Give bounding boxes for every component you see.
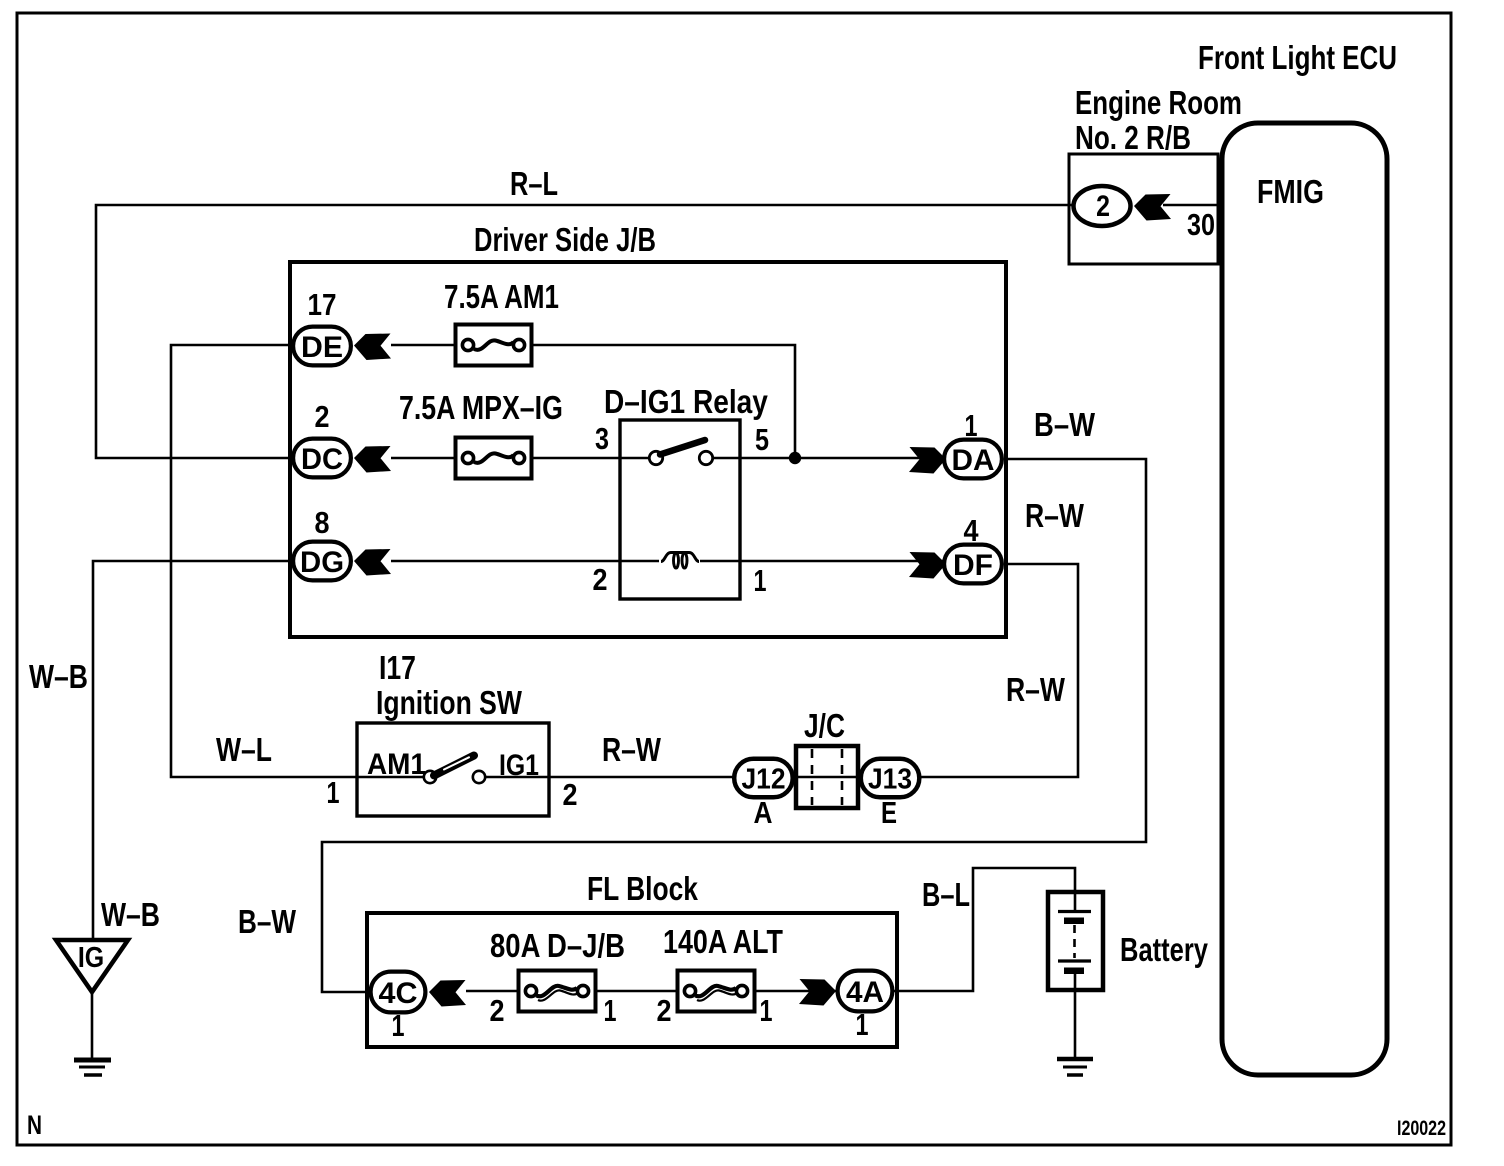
wire fuse AM1 to junction above relay pin 5 bbox=[533, 345, 795, 458]
svg-text:R–W: R–W bbox=[1025, 498, 1085, 534]
connector DA bbox=[944, 440, 1002, 479]
svg-text:140A ALT: 140A ALT bbox=[663, 924, 783, 960]
ignition contact circles bbox=[424, 771, 436, 783]
wire arrow DC to fuse MPX-IG bbox=[391, 457, 454, 460]
ground symbol battery bbox=[1057, 1059, 1093, 1075]
arrow into DA bbox=[909, 447, 946, 474]
fuse 7.5A AM1 bbox=[456, 325, 532, 366]
ECU FMIG box bbox=[1222, 123, 1387, 1075]
wire DE to W-L to ignition SW pin 1 bbox=[171, 345, 357, 777]
svg-text:5: 5 bbox=[755, 421, 769, 456]
svg-text:W–B: W–B bbox=[29, 659, 88, 695]
connector 4C bbox=[371, 972, 426, 1013]
arrow into DE bbox=[354, 334, 391, 361]
svg-text:Engine Room: Engine Room bbox=[1075, 85, 1242, 122]
wire fuse 80A to fuse 140A bbox=[597, 990, 676, 993]
svg-text:3: 3 bbox=[595, 420, 609, 455]
wire R-L net: engine room to DC bbox=[96, 205, 1072, 458]
junction node bbox=[789, 452, 801, 464]
arrow into DF bbox=[909, 552, 946, 579]
svg-text:DF: DF bbox=[953, 549, 993, 582]
svg-text:B–W: B–W bbox=[238, 904, 297, 941]
arrow into DC bbox=[354, 446, 391, 473]
svg-text:E: E bbox=[881, 795, 897, 830]
wire arrow 4C to fuse 80A bbox=[466, 990, 517, 993]
wire R-W net: DF right down to J13 bbox=[920, 564, 1078, 777]
Driver Side J/B box bbox=[290, 262, 1006, 637]
FL Block box bbox=[367, 913, 897, 1047]
svg-text:J12: J12 bbox=[741, 762, 785, 794]
svg-text:DE: DE bbox=[301, 331, 343, 364]
svg-text:4A: 4A bbox=[846, 976, 884, 1009]
svg-text:2: 2 bbox=[656, 994, 671, 1028]
fuse 140A ALT bbox=[678, 971, 755, 1012]
J/C dashed pin lines bbox=[812, 749, 842, 805]
svg-text:Front Light ECU: Front Light ECU bbox=[1198, 40, 1397, 77]
svg-text:I17: I17 bbox=[379, 650, 416, 686]
svg-text:R–L: R–L bbox=[510, 166, 558, 203]
fuse 80A D-J/B bbox=[519, 971, 596, 1012]
connector DG bbox=[293, 542, 351, 581]
connector J12 bbox=[734, 759, 793, 798]
svg-text:Battery: Battery bbox=[1120, 932, 1208, 969]
svg-text:8: 8 bbox=[314, 506, 329, 540]
svg-text:DA: DA bbox=[952, 444, 995, 477]
svg-text:2: 2 bbox=[1096, 189, 1110, 223]
svg-text:2: 2 bbox=[489, 994, 504, 1028]
ignition switch box bbox=[357, 723, 549, 816]
relay switch lever bbox=[660, 440, 705, 455]
ignition switch lever bbox=[434, 756, 474, 776]
connector 4A bbox=[838, 971, 893, 1012]
wire battery to ground bbox=[1074, 974, 1077, 1057]
svg-text:W–B: W–B bbox=[101, 897, 160, 933]
arrow into DG bbox=[354, 549, 391, 576]
wire FMIG pin 30 bbox=[1163, 204, 1222, 207]
svg-text:1: 1 bbox=[391, 1008, 404, 1043]
ground triangle IG bbox=[56, 940, 128, 992]
fuse 7.5A MPX-IG bbox=[456, 438, 532, 479]
svg-text:D–IG1 Relay: D–IG1 Relay bbox=[604, 384, 768, 421]
relay D-IG1 box bbox=[620, 420, 740, 599]
svg-text:7.5A AM1: 7.5A AM1 bbox=[444, 279, 559, 316]
svg-text:1: 1 bbox=[326, 775, 339, 810]
svg-text:W–L: W–L bbox=[216, 732, 272, 768]
arrow into 4C bbox=[429, 980, 466, 1007]
svg-text:I20022: I20022 bbox=[1397, 1116, 1446, 1140]
svg-text:1: 1 bbox=[759, 993, 772, 1028]
svg-text:A: A bbox=[753, 796, 772, 831]
svg-text:Driver Side J/B: Driver Side J/B bbox=[474, 222, 656, 259]
wire IG triangle to ground bbox=[91, 992, 94, 1058]
connector 2 Engine Room bbox=[1074, 186, 1131, 226]
wire relay pin 1 to DF bbox=[700, 560, 943, 563]
svg-text:N: N bbox=[27, 1110, 42, 1140]
wire fuse 140A to arrow 4A bbox=[756, 990, 836, 993]
svg-text:IG: IG bbox=[78, 941, 104, 973]
ground symbol IG bbox=[74, 1060, 111, 1075]
wire into ignition contact bbox=[357, 776, 424, 779]
svg-text:2: 2 bbox=[592, 563, 607, 597]
arrow into 4A bbox=[799, 979, 836, 1006]
Engine Room No.2 R/B box bbox=[1069, 154, 1218, 264]
wire relay pin 5 to DA bbox=[713, 457, 943, 460]
wire fuse MPX-IG to relay pin 3 bbox=[533, 457, 650, 460]
svg-text:FMIG: FMIG bbox=[1257, 174, 1324, 210]
battery plates bbox=[1058, 912, 1091, 975]
svg-text:R–W: R–W bbox=[1006, 672, 1066, 708]
junction connector J/C box bbox=[796, 746, 858, 808]
svg-text:J13: J13 bbox=[868, 762, 912, 794]
svg-text:1: 1 bbox=[855, 1007, 868, 1042]
svg-text:No. 2 R/B: No. 2 R/B bbox=[1075, 120, 1191, 157]
arrow into connector 2 bbox=[1134, 194, 1171, 221]
svg-text:2: 2 bbox=[314, 400, 329, 434]
wire DG to W-B down to IG ground bbox=[93, 561, 292, 940]
svg-text:Ignition SW: Ignition SW bbox=[376, 685, 523, 721]
svg-text:17: 17 bbox=[308, 288, 337, 323]
svg-text:DG: DG bbox=[300, 546, 344, 579]
svg-text:FL Block: FL Block bbox=[587, 871, 698, 907]
battery box bbox=[1048, 892, 1103, 990]
svg-text:DC: DC bbox=[301, 442, 343, 476]
relay coil bbox=[661, 553, 699, 569]
svg-text:2: 2 bbox=[562, 778, 577, 812]
svg-text:J/C: J/C bbox=[804, 708, 845, 744]
svg-text:B–L: B–L bbox=[922, 877, 970, 914]
svg-text:1: 1 bbox=[603, 993, 616, 1028]
svg-text:30: 30 bbox=[1187, 206, 1215, 241]
svg-text:7.5A MPX–IG: 7.5A MPX–IG bbox=[399, 390, 563, 426]
connector DC bbox=[293, 439, 351, 478]
svg-text:4C: 4C bbox=[379, 977, 418, 1010]
connector DF bbox=[944, 545, 1002, 584]
svg-text:1: 1 bbox=[753, 563, 766, 598]
wire B-W net: DA right down left down to 4C bbox=[322, 459, 1146, 992]
wire B-L net: 4A to battery bbox=[894, 868, 1075, 991]
wire through J/C bbox=[796, 776, 858, 779]
connector J13 bbox=[861, 759, 920, 798]
relay switch contact circles bbox=[649, 451, 662, 464]
svg-text:B–W: B–W bbox=[1034, 408, 1095, 444]
wire ignition pin 2 to J12 bbox=[485, 776, 733, 779]
wire arrow DE to fuse AM1 bbox=[391, 344, 454, 347]
connector DE bbox=[293, 327, 351, 366]
wire arrow DG to relay pin 2 bbox=[391, 560, 659, 563]
svg-text:80A D–J/B: 80A D–J/B bbox=[490, 929, 625, 965]
svg-text:R–W: R–W bbox=[602, 732, 662, 768]
